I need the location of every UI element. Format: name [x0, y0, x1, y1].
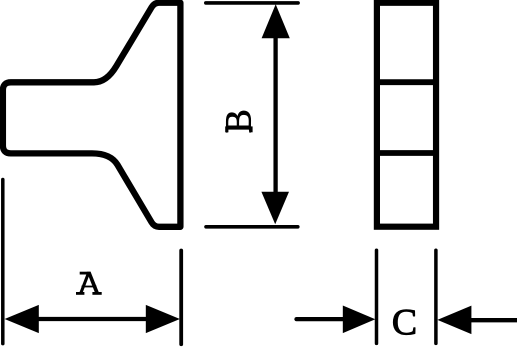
knob side profile outline [3, 3, 181, 227]
label C [393, 310, 415, 335]
dimension A left extension line [1, 180, 5, 344]
dimension B top extension line [206, 1, 298, 5]
front view divider line lower [377, 150, 436, 156]
dimension B arrowhead down [261, 192, 289, 224]
dimension A line [20, 317, 165, 321]
label A [76, 272, 102, 295]
front view divider line upper [377, 79, 436, 85]
dimension A right extension line [179, 251, 183, 345]
dimension B bottom extension line [206, 225, 298, 229]
dimension C right extension line [434, 250, 438, 343]
knob front view rectangle [377, 3, 436, 227]
dimension B arrowhead up [262, 4, 290, 38]
dimension C right leader line [470, 318, 517, 322]
label B (rotated) [225, 126, 228, 132]
dimension C arrowhead pointing left [437, 306, 471, 335]
dimension C left leader line [297, 317, 346, 321]
dimension C arrowhead pointing right [343, 306, 376, 334]
dimension B line [273, 20, 277, 210]
dimension A arrowhead right [146, 305, 180, 333]
dimension C left extension line [375, 250, 379, 343]
dimension A arrowhead left [5, 305, 39, 333]
